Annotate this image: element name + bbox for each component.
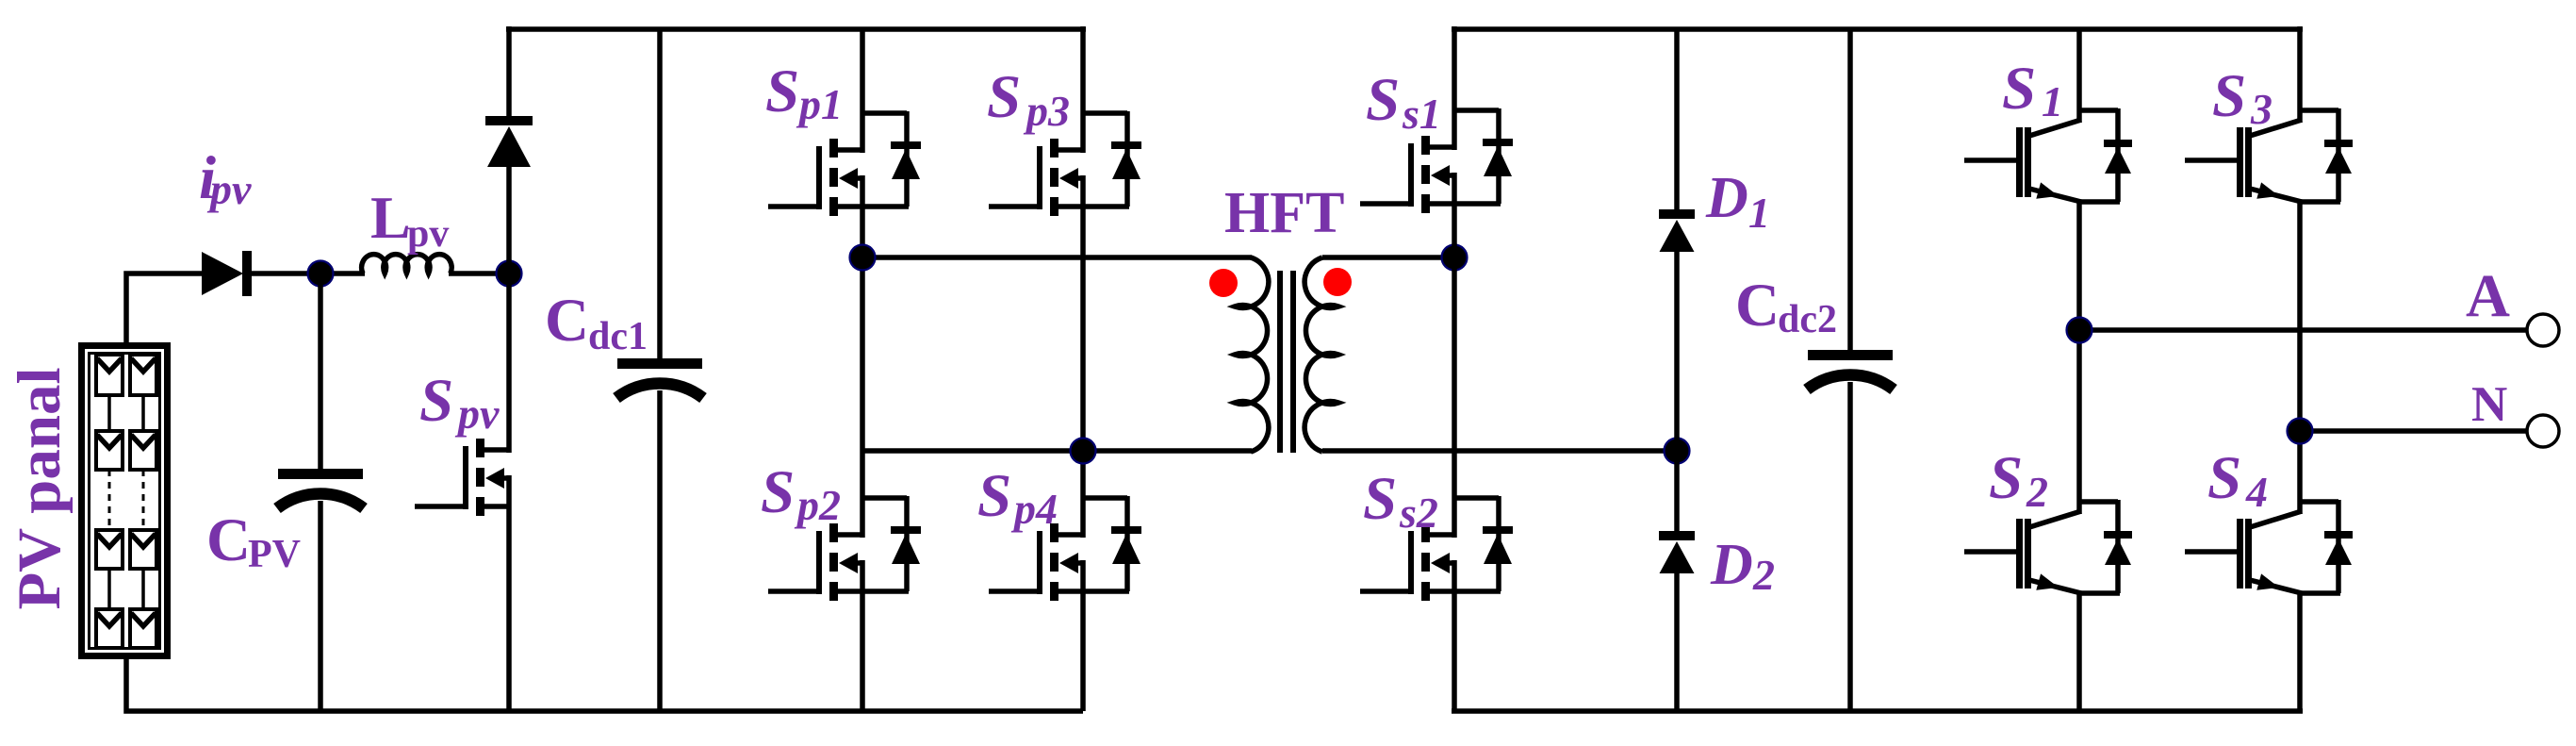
diode D2 xyxy=(1659,531,1695,573)
wire Sp4 source leg xyxy=(1080,560,1086,711)
wire C_dc1 bottom xyxy=(657,390,663,711)
svg-text:S: S xyxy=(419,367,453,435)
transistor Sp4 (MOSFET) xyxy=(989,496,1141,601)
node input-CPV junction xyxy=(308,261,334,287)
svg-text:dc2: dc2 xyxy=(1778,298,1837,341)
svg-text:pv: pv xyxy=(206,165,252,213)
svg-text:pv: pv xyxy=(454,390,500,438)
wire C_dc1 top xyxy=(657,29,663,359)
svg-text:dc1: dc1 xyxy=(588,315,648,358)
transformer core xyxy=(1280,271,1293,453)
svg-text:PV: PV xyxy=(248,533,301,576)
svg-text:p4: p4 xyxy=(1010,485,1058,533)
label S_p2 xyxy=(761,458,841,529)
wire D1 bottom leg xyxy=(1674,251,1680,451)
wire Ss2 source leg xyxy=(1452,560,1457,711)
wire S3 collector leg xyxy=(2297,26,2303,123)
wire top rail secondary xyxy=(1452,26,2303,32)
PV panel xyxy=(82,346,168,656)
svg-text:1: 1 xyxy=(2042,77,2063,125)
svg-text:S: S xyxy=(977,462,1011,530)
svg-text:4: 4 xyxy=(2245,468,2268,516)
svg-text:C: C xyxy=(1735,272,1780,340)
wire Spv drain xyxy=(506,274,512,453)
wire S1-S2 leg xyxy=(2076,202,2082,514)
wire Ss1 drain leg xyxy=(1452,26,1457,150)
wire primary top (leg1 mid to HFT) xyxy=(862,255,1252,260)
transistor Ss2 (MOSFET) xyxy=(1360,496,1513,601)
svg-text:S: S xyxy=(765,58,799,125)
wire boost diode to node xyxy=(506,166,512,274)
node leg2 midpoint xyxy=(1071,439,1096,464)
wire C_dc2 bottom xyxy=(1847,382,1853,711)
wire Sp3 drain leg xyxy=(1080,26,1086,153)
svg-text:1: 1 xyxy=(1748,189,1770,237)
svg-text:S: S xyxy=(2212,62,2246,130)
svg-text:C: C xyxy=(545,287,589,355)
transformer HFT secondary winding xyxy=(1304,257,1338,452)
wire D2 bottom leg xyxy=(1674,572,1680,711)
transistor S4 (IGBT) xyxy=(2185,500,2353,593)
svg-text:2: 2 xyxy=(2026,468,2048,516)
label S_p1 xyxy=(765,58,843,128)
svg-text:A: A xyxy=(2466,262,2510,330)
inductor Lpv xyxy=(362,255,452,274)
label S_s2 xyxy=(1363,465,1438,537)
wire CPV bottom xyxy=(318,501,323,711)
wire secondary top (HFT to Ss1) xyxy=(1322,255,1454,260)
wire S3-S4 leg xyxy=(2297,202,2303,514)
wire Ss1-Ss2 leg xyxy=(1452,173,1457,538)
label S_2 xyxy=(1989,444,2048,516)
wire Sp1-Sp2 leg xyxy=(860,175,865,538)
label L_pv xyxy=(370,184,449,256)
transistor S3 (IGBT) xyxy=(2185,108,2353,202)
label C_dc2 xyxy=(1735,272,1837,341)
svg-text:S: S xyxy=(987,63,1021,131)
wire boost diode leg xyxy=(506,26,512,117)
svg-text:L: L xyxy=(370,184,411,251)
transistor Sp2 (MOSFET) xyxy=(768,496,921,601)
label N xyxy=(2471,377,2507,432)
wire output N xyxy=(2300,428,2528,434)
svg-text:s1: s1 xyxy=(1402,90,1441,138)
transistor S2 (IGBT) xyxy=(1964,500,2132,593)
svg-text:D: D xyxy=(1705,166,1748,230)
label PV panal xyxy=(6,367,74,609)
node Ss1 source junction xyxy=(1442,245,1468,271)
label i_pv xyxy=(199,144,252,213)
wire D2 top leg xyxy=(1674,451,1680,533)
svg-text:S: S xyxy=(1989,444,2023,512)
wire Spv source xyxy=(506,475,512,711)
svg-text:C: C xyxy=(206,506,251,574)
wire primary bottom (leg to HFT) xyxy=(862,448,1252,454)
diode input (series blocking diode) xyxy=(202,251,252,296)
node N junction xyxy=(2288,419,2313,444)
wire bottom rail secondary xyxy=(1452,708,2303,714)
label S_pv xyxy=(419,367,500,438)
label S_p4 xyxy=(977,462,1058,533)
capacitor CPV xyxy=(277,469,364,508)
svg-text:S: S xyxy=(1363,465,1397,533)
label S_s1 xyxy=(1366,66,1441,138)
wire S2 emitter leg xyxy=(2076,593,2082,711)
svg-text:S: S xyxy=(1366,66,1400,134)
wire CPV top xyxy=(318,271,323,470)
node boost junction xyxy=(497,261,522,287)
node leg1 midpoint xyxy=(850,245,876,271)
wire diode to inductor xyxy=(250,271,365,276)
label S_p3 xyxy=(987,63,1070,135)
svg-text:D: D xyxy=(1710,533,1753,597)
transistor S1 (IGBT) xyxy=(1964,108,2132,202)
svg-text:HFT: HFT xyxy=(1224,181,1344,245)
svg-text:N: N xyxy=(2471,377,2507,432)
capacitor Cdc1 xyxy=(616,358,703,398)
svg-text:p3: p3 xyxy=(1023,87,1070,135)
wire top rail primary xyxy=(506,26,1086,32)
wire PV top lead xyxy=(126,274,204,345)
capacitor Cdc2 xyxy=(1807,350,1894,390)
wire bottom rail primary xyxy=(126,655,1083,711)
label D_1 xyxy=(1705,166,1770,237)
label S_1 xyxy=(2002,55,2063,125)
transistor Sp3 (MOSFET) xyxy=(989,111,1141,216)
svg-text:S: S xyxy=(2207,444,2241,512)
transistor Spv (MOSFET, no body diode) xyxy=(415,439,510,516)
svg-text:S: S xyxy=(2002,55,2036,123)
label HFT xyxy=(1224,181,1344,245)
label C_PV xyxy=(206,506,301,576)
diode D1 xyxy=(1659,209,1695,252)
polarity dot primary xyxy=(1209,269,1238,297)
node D1-D2 junction xyxy=(1665,439,1690,464)
terminal N circle xyxy=(2527,415,2559,447)
wire inductor to boost node xyxy=(449,271,509,276)
polarity dot secondary xyxy=(1323,268,1352,296)
svg-text:p2: p2 xyxy=(794,481,841,529)
svg-text:s2: s2 xyxy=(1399,489,1438,537)
transistor Ss1 (MOSFET) xyxy=(1360,108,1513,213)
wire Sp2 source leg xyxy=(860,560,865,711)
wire secondary bottom (HFT to D node) xyxy=(1322,448,1677,454)
label S_3 xyxy=(2212,62,2272,133)
svg-text:PV panal: PV panal xyxy=(6,367,74,609)
wire C_dc2 top xyxy=(1847,29,1853,351)
wire output A xyxy=(2079,327,2528,333)
diode boost (vertical) xyxy=(485,116,533,167)
svg-text:pv: pv xyxy=(407,212,449,256)
svg-text:2: 2 xyxy=(1752,551,1775,599)
svg-text:p1: p1 xyxy=(796,80,843,128)
node A junction xyxy=(2067,318,2092,343)
wire D1 top leg xyxy=(1674,29,1680,211)
label C_dc1 xyxy=(545,287,648,358)
wire Sp1 drain leg xyxy=(860,29,865,153)
label A xyxy=(2466,262,2510,330)
transformer HFT primary winding xyxy=(1235,257,1269,452)
label S_4 xyxy=(2207,444,2268,516)
svg-text:3: 3 xyxy=(2250,85,2272,133)
label D_2 xyxy=(1710,533,1775,599)
wire S4 emitter leg xyxy=(2297,593,2303,711)
wire Sp3-Sp4 leg xyxy=(1080,175,1086,538)
wire S1 collector leg xyxy=(2076,29,2082,123)
terminal A circle xyxy=(2527,314,2559,346)
transistor Sp1 (MOSFET) xyxy=(768,111,921,216)
svg-text:S: S xyxy=(761,458,795,526)
